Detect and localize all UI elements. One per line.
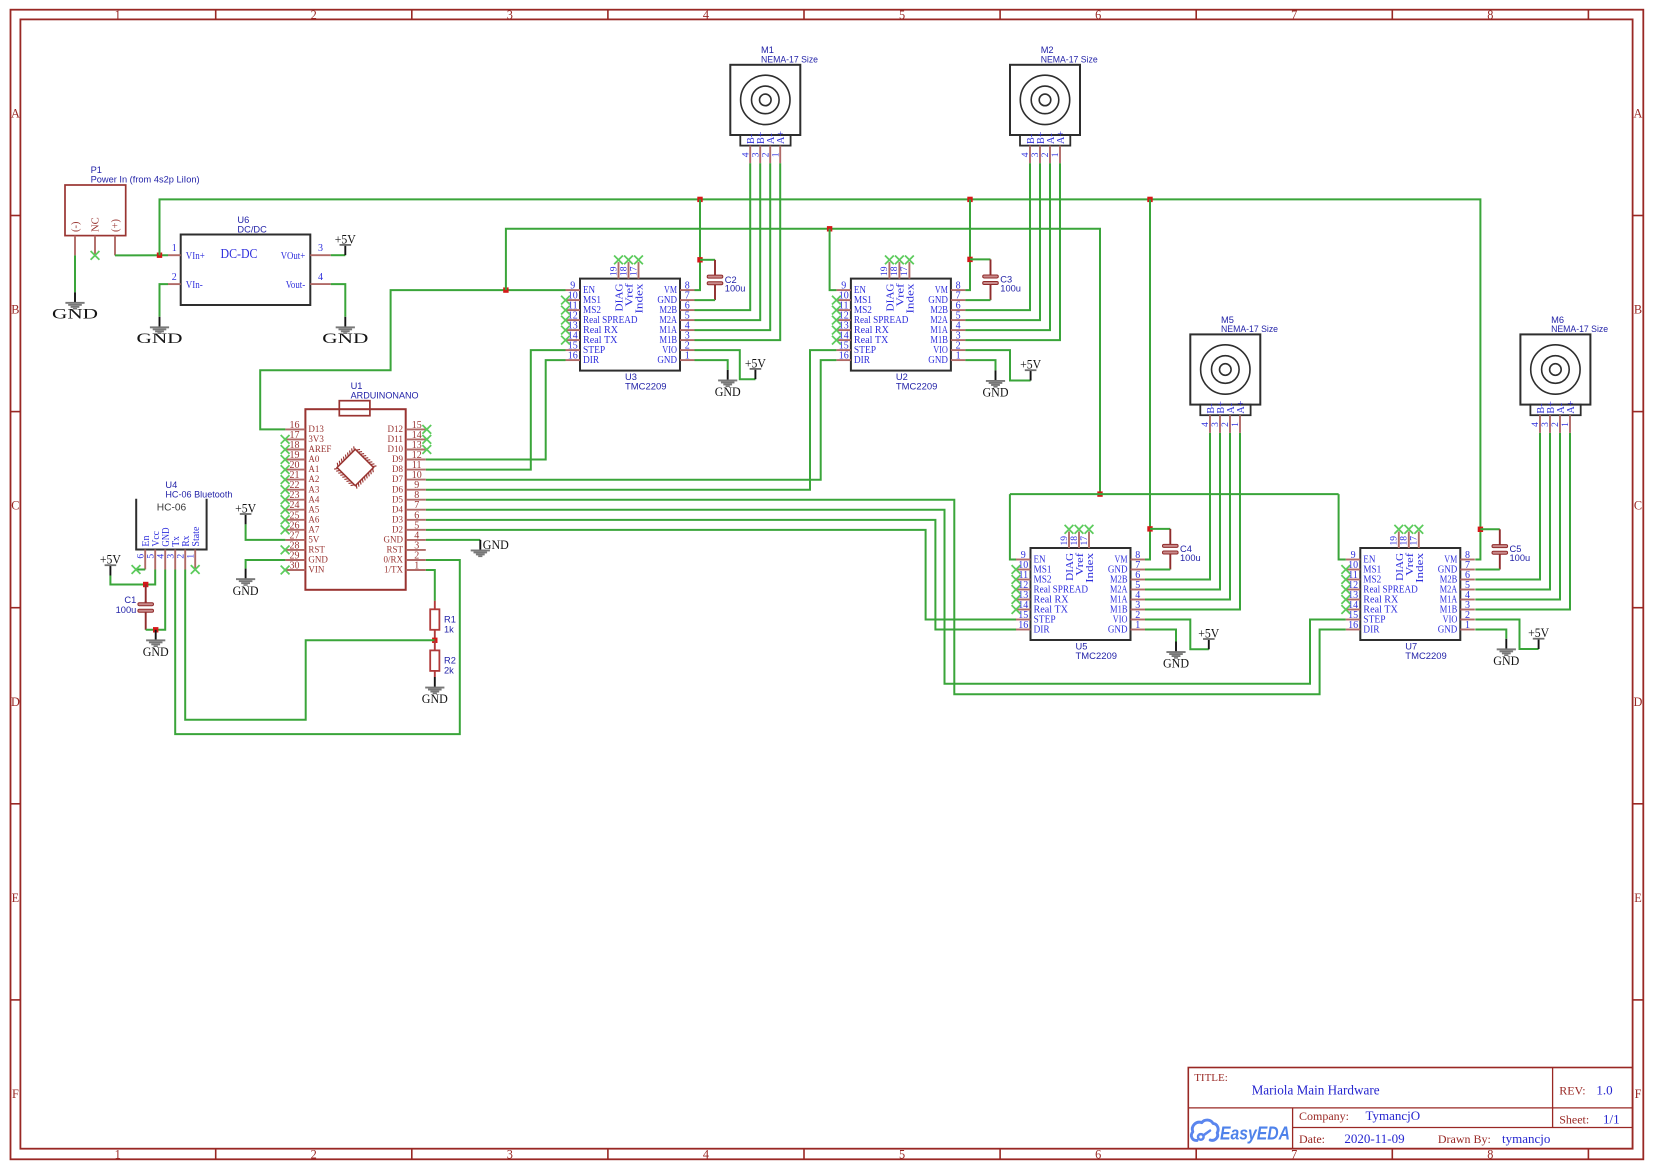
no-connect X xyxy=(191,565,200,574)
no-connect X xyxy=(281,525,290,534)
pin 7 D4 of U1 xyxy=(406,509,426,511)
regulator U6 DC-DC xyxy=(181,235,311,306)
wire U2 DIR from D7 xyxy=(426,360,837,480)
svg-text:U3: U3 xyxy=(625,372,637,382)
ground xyxy=(65,292,84,309)
svg-text:Sheet:: Sheet: xyxy=(1559,1112,1589,1126)
no-connect X xyxy=(422,445,431,454)
no-connect X xyxy=(132,565,141,574)
pin 12 Real SPREAD of U2 xyxy=(836,319,851,321)
svg-text:D4: D4 xyxy=(392,505,403,515)
pin 16 DIR of U7 xyxy=(1346,629,1361,631)
pin 2 VIO of U3 xyxy=(680,349,695,351)
pin 14 D11 of U1 xyxy=(406,438,426,440)
pin 3 Tx of U4 xyxy=(174,550,176,570)
svg-text:2: 2 xyxy=(311,1147,317,1161)
svg-text:D3: D3 xyxy=(392,515,403,525)
pin 10 MS1 of U3 xyxy=(566,299,581,301)
svg-text:U1: U1 xyxy=(351,381,363,391)
pin 8 VM of U7 xyxy=(1460,559,1475,561)
svg-text:(+): (+) xyxy=(111,218,122,232)
pin 8 VM of U3 xyxy=(680,289,695,291)
pin 19 DIAG of U5 xyxy=(1068,532,1070,549)
no-connect X xyxy=(561,336,570,345)
wire U5 M2A to M5 pin3 xyxy=(1145,433,1220,590)
svg-text:ARDUINONANO: ARDUINONANO xyxy=(351,391,419,401)
pin 1 1/TX of U1 xyxy=(406,569,426,571)
capacitor C1 branch xyxy=(145,585,147,603)
pin 30 VIN of U1 xyxy=(285,569,305,571)
svg-text:GND: GND xyxy=(422,692,448,706)
pin header of M5 xyxy=(1200,405,1250,416)
pin 18 Vref of U7 xyxy=(1408,532,1410,549)
pin 2 A- of M6 xyxy=(1559,415,1561,433)
pin NC of P1 xyxy=(94,236,96,256)
stepper motor M2 xyxy=(1010,65,1080,135)
wire U2 STEP from D6 xyxy=(426,350,837,490)
wire U7 STEP from D4 xyxy=(426,510,1346,684)
svg-text:TymancjO: TymancjO xyxy=(1366,1108,1421,1123)
svg-text:tymancjo: tymancjo xyxy=(1502,1131,1550,1146)
pin 9 EN of U5 xyxy=(1016,559,1031,561)
svg-text:Index: Index xyxy=(906,284,917,314)
wire C4 bottom to U5 GND pin 7 xyxy=(1145,569,1170,571)
junction xyxy=(697,197,702,202)
svg-text:17: 17 xyxy=(628,266,639,276)
pin 2 A- of M5 xyxy=(1229,415,1231,433)
svg-text:1: 1 xyxy=(685,351,690,362)
pin 1 A+ of M6 xyxy=(1569,415,1571,433)
no-connect X xyxy=(1341,565,1350,574)
pin 6 D3 of U1 xyxy=(406,519,426,521)
pin 4 GND of U1 xyxy=(406,539,426,541)
svg-text:D10: D10 xyxy=(388,445,404,455)
pin 8 VM of U5 xyxy=(1131,559,1146,561)
wire U1 1/TX to R1 xyxy=(426,570,435,601)
no-connect X xyxy=(281,435,290,444)
no-connect X xyxy=(614,256,623,265)
pin 9 D6 of U1 xyxy=(406,489,426,491)
pin 21 A2 of U1 xyxy=(285,479,305,481)
svg-text:+5V: +5V xyxy=(745,356,766,370)
no-connect X xyxy=(561,296,570,305)
wire C1 bottom to U4 GND xyxy=(146,570,166,630)
wire VM vertical to U5 pin 8 xyxy=(1145,199,1150,559)
svg-text:A2: A2 xyxy=(308,475,319,485)
pin 14 Real TX of U7 xyxy=(1346,609,1361,611)
no-connect X xyxy=(1012,595,1021,604)
svg-text:DIR: DIR xyxy=(1363,624,1379,635)
no-connect X xyxy=(832,326,841,335)
pin 5 M2A of U5 xyxy=(1131,589,1146,591)
pin 9 EN of U7 xyxy=(1346,559,1361,561)
svg-text:Drawn By:: Drawn By: xyxy=(1438,1132,1491,1146)
svg-text:5: 5 xyxy=(899,1147,905,1161)
wire divider junction to U4 Rx xyxy=(185,570,435,720)
wire C5 bottom to U7 GND pin 7 xyxy=(1475,569,1500,571)
wire U3 M2A to M1 pin3 xyxy=(695,163,761,320)
pin 13 Real RX of U2 xyxy=(836,329,851,331)
junction xyxy=(143,582,148,587)
pin 16 DIR of U2 xyxy=(836,359,851,361)
pin 3 B+ of M6 xyxy=(1549,415,1551,433)
pin 10 MS1 of U2 xyxy=(836,299,851,301)
pin 19 DIAG of U7 xyxy=(1398,532,1400,549)
+5V power symbol xyxy=(105,564,117,575)
pin 17 Index of U2 xyxy=(908,262,910,279)
svg-text:D11: D11 xyxy=(388,435,404,445)
pin 10 MS1 of U5 xyxy=(1016,569,1031,571)
wire U2 GND1 to ground xyxy=(965,360,995,370)
+5V power symbol xyxy=(240,513,252,524)
svg-text:GND: GND xyxy=(483,538,509,552)
no-connect X xyxy=(281,455,290,464)
svg-text:DC-DC: DC-DC xyxy=(221,246,258,261)
no-connect X xyxy=(281,546,290,555)
pin 5 Vcc of U4 xyxy=(154,550,156,570)
svg-text:6: 6 xyxy=(1095,1147,1101,1161)
svg-text:2: 2 xyxy=(311,8,317,22)
pin 19 A0 of U1 xyxy=(285,459,305,461)
pin 20 A1 of U1 xyxy=(285,469,305,471)
pin 12 D9 of U1 xyxy=(406,459,426,461)
wire U7 M1A to M6 pin2 xyxy=(1475,433,1560,600)
junction xyxy=(157,253,162,258)
pin 13 D10 of U1 xyxy=(406,449,426,451)
pin 3 M1B of U7 xyxy=(1460,609,1475,611)
no-connect X xyxy=(1341,585,1350,594)
junction xyxy=(827,226,832,231)
pin 15 STEP of U2 xyxy=(836,349,851,351)
no-connect X xyxy=(1085,525,1094,534)
resistor R1 xyxy=(434,601,436,610)
svg-text:U2: U2 xyxy=(896,372,908,382)
pin 4 M1A of U2 xyxy=(951,329,966,331)
no-connect X xyxy=(281,465,290,474)
pin 6 M2B of U7 xyxy=(1460,579,1475,581)
svg-text:+5V: +5V xyxy=(235,501,256,515)
stepper motor M1 xyxy=(730,65,800,135)
svg-text:A0: A0 xyxy=(308,455,319,465)
wire U7 M2B to M6 pin4 xyxy=(1475,433,1540,580)
wire U7 DIR from D5 xyxy=(426,500,1346,694)
no-connect X xyxy=(281,566,290,575)
svg-text:REV:: REV: xyxy=(1559,1083,1585,1097)
svg-text:B: B xyxy=(11,303,19,317)
pin 11 MS2 of U5 xyxy=(1016,579,1031,581)
svg-text:AREF: AREF xyxy=(308,445,331,455)
svg-text:EasyEDA: EasyEDA xyxy=(1220,1123,1290,1143)
svg-text:17: 17 xyxy=(1409,536,1420,546)
wire U7 M1B to M6 pin1 xyxy=(1475,433,1570,610)
wire U1 D8 to U3 STEP xyxy=(426,350,566,470)
svg-text:D9: D9 xyxy=(392,455,403,465)
module U4 HC-06 Bluetooth xyxy=(136,499,206,550)
wire C2 top xyxy=(700,259,715,261)
svg-text:GND: GND xyxy=(384,536,404,546)
pin (-) of P1 xyxy=(74,236,76,256)
svg-text:2020-11-09: 2020-11-09 xyxy=(1344,1131,1404,1146)
wire U4 Vcc to +5V xyxy=(110,570,155,585)
svg-text:GND: GND xyxy=(1108,624,1128,635)
svg-text:GND: GND xyxy=(928,355,948,366)
MCU board U1 ARDUINONANO xyxy=(305,409,405,590)
wire U3 M1B to M1 pin1 xyxy=(695,163,781,340)
no-connect X xyxy=(832,316,841,325)
wire C4 top xyxy=(1150,528,1170,530)
pin 6 M2B of U5 xyxy=(1131,579,1146,581)
wire U3 GND1 to ground xyxy=(695,360,728,370)
svg-text:RST: RST xyxy=(387,546,404,556)
pin 4 B- of M6 xyxy=(1539,415,1541,433)
wire U1 0/RX to U4 Tx xyxy=(175,560,460,734)
svg-text:GND: GND xyxy=(1163,657,1189,671)
svg-text:16: 16 xyxy=(1348,620,1358,631)
no-connect X xyxy=(895,256,904,265)
junction xyxy=(153,627,158,632)
svg-text:1: 1 xyxy=(115,8,121,22)
svg-text:1/1: 1/1 xyxy=(1603,1111,1620,1126)
no-connect X xyxy=(561,316,570,325)
svg-text:16: 16 xyxy=(839,351,849,362)
svg-text:A7: A7 xyxy=(308,525,319,535)
capacitor C1 xyxy=(138,601,154,614)
capacitor C5 xyxy=(1492,529,1508,569)
svg-text:2: 2 xyxy=(172,272,177,283)
svg-text:TMC2209: TMC2209 xyxy=(896,381,938,391)
svg-text:DIR: DIR xyxy=(1034,624,1050,635)
pin 4 B- of M5 xyxy=(1209,415,1211,433)
no-connect X xyxy=(1341,605,1350,614)
pin 19 DIAG of U2 xyxy=(888,262,890,279)
svg-text:State: State xyxy=(191,526,202,547)
no-connect X xyxy=(1065,525,1074,534)
pin 11 MS2 of U7 xyxy=(1346,579,1361,581)
ground xyxy=(146,630,165,647)
svg-text:Date:: Date: xyxy=(1299,1132,1325,1146)
wire U4 En stub xyxy=(136,569,145,571)
svg-text:DC/DC: DC/DC xyxy=(237,224,267,234)
pin 4 GND of U4 xyxy=(164,550,166,570)
svg-text:1: 1 xyxy=(115,1147,121,1161)
pin 6 M2B of U2 xyxy=(951,309,966,311)
pin 10 MS1 of U7 xyxy=(1346,569,1361,571)
svg-text:1/TX: 1/TX xyxy=(384,566,403,576)
pin 6 M2B of U3 xyxy=(680,309,695,311)
no-connect X xyxy=(281,515,290,524)
svg-text:Index: Index xyxy=(1085,553,1096,583)
no-connect X xyxy=(624,256,633,265)
wire U7 VIO to +5V xyxy=(1475,620,1538,650)
pin 11 MS2 of U3 xyxy=(566,309,581,311)
title block frame xyxy=(1188,1068,1632,1149)
pin 11 D8 of U1 xyxy=(406,469,426,471)
ground xyxy=(236,569,255,586)
no-connect X xyxy=(281,495,290,504)
wire U2 M1A to M2 pin2 xyxy=(965,163,1050,330)
svg-text:Index: Index xyxy=(1415,553,1426,583)
wire U5 M1B to M5 pin1 xyxy=(1145,433,1240,610)
pin 16 D13 of U1 xyxy=(285,428,305,430)
pin 7 GND of U7 xyxy=(1460,569,1475,571)
pin 15 D12 of U1 xyxy=(406,428,426,430)
connector P1 Power In xyxy=(65,185,126,236)
pin 17 Index of U5 xyxy=(1088,532,1090,549)
wire U5 STEP from D2 xyxy=(426,530,1016,620)
pin 3 VOut+ of U6 xyxy=(310,254,331,256)
wire VM vertical to U2 pin 8 xyxy=(965,199,970,290)
svg-text:1: 1 xyxy=(1230,422,1241,427)
svg-text:A5: A5 xyxy=(308,505,319,515)
svg-text:16: 16 xyxy=(568,351,578,362)
resistor R2 xyxy=(434,640,436,650)
pin 17 3V3 of U1 xyxy=(285,438,305,440)
svg-text:5: 5 xyxy=(899,8,905,22)
svg-text:100u: 100u xyxy=(725,284,746,294)
wire net EN down to U7 EN xyxy=(1339,494,1346,559)
pin 2 VIO of U5 xyxy=(1131,619,1146,621)
junction xyxy=(1147,197,1152,202)
ground xyxy=(1497,639,1516,656)
svg-text:A+: A+ xyxy=(1236,400,1247,413)
svg-text:D8: D8 xyxy=(392,465,403,475)
pin 1 A+ of M2 xyxy=(1059,146,1061,164)
svg-text:NEMA-17 Size: NEMA-17 Size xyxy=(1041,55,1098,65)
pin 22 A3 of U1 xyxy=(285,489,305,491)
no-connect X xyxy=(832,336,841,345)
pin 6 En of U4 xyxy=(144,550,146,570)
wire net VM from P1 to motors drivers xyxy=(160,199,1481,559)
svg-text:+5V: +5V xyxy=(1020,358,1041,372)
ground xyxy=(471,540,490,557)
wire net EN branch up and across xyxy=(506,229,1100,494)
no-connect X xyxy=(281,475,290,484)
svg-text:+5V: +5V xyxy=(1198,626,1219,640)
pin 14 Real TX of U2 xyxy=(836,339,851,341)
svg-text:A+: A+ xyxy=(776,131,787,144)
+5V power symbol xyxy=(340,244,352,255)
no-connect X xyxy=(1075,525,1084,534)
svg-text:GND: GND xyxy=(715,385,741,399)
wire net EN from D13 to drivers xyxy=(260,290,565,429)
junction xyxy=(503,287,508,292)
svg-text:Vout-: Vout- xyxy=(286,280,306,291)
pin 13 Real RX of U5 xyxy=(1016,599,1031,601)
svg-text:GND: GND xyxy=(308,556,328,566)
pin 7 GND of U5 xyxy=(1131,569,1146,571)
pin 28 RST of U1 xyxy=(285,549,305,551)
pin 5 M2A of U3 xyxy=(680,319,695,321)
pin 4 B- of M2 xyxy=(1029,146,1031,164)
no-connect X xyxy=(281,505,290,514)
svg-text:3: 3 xyxy=(507,8,513,22)
pin 12 Real SPREAD of U3 xyxy=(566,319,581,321)
svg-text:8: 8 xyxy=(1487,1147,1493,1161)
svg-text:U7: U7 xyxy=(1405,641,1417,651)
no-connect X xyxy=(1012,585,1021,594)
pin 1 A+ of M5 xyxy=(1239,415,1241,433)
svg-text:100u: 100u xyxy=(1180,553,1201,563)
svg-text:RST: RST xyxy=(308,546,325,556)
wire U5 M2B to M5 pin4 xyxy=(1145,433,1210,580)
svg-text:HC-06: HC-06 xyxy=(157,503,187,514)
pin 3 RST of U1 xyxy=(406,549,426,551)
pin 2 A- of M2 xyxy=(1049,146,1051,164)
no-connect X xyxy=(422,435,431,444)
svg-text:A+: A+ xyxy=(1566,400,1577,413)
svg-text:A1: A1 xyxy=(308,465,319,475)
wire U2 M2B to M2 pin4 xyxy=(965,163,1030,310)
svg-text:5V: 5V xyxy=(308,536,319,546)
pin 14 Real TX of U3 xyxy=(566,339,581,341)
svg-text:GND: GND xyxy=(1493,654,1519,668)
pin 1 VIn+ of U6 xyxy=(168,254,181,256)
pin 3 M1B of U2 xyxy=(951,339,966,341)
wire +5V to U1 5V pin xyxy=(246,524,286,540)
pin 10 D7 of U1 xyxy=(406,479,426,481)
svg-text:U6: U6 xyxy=(237,215,249,225)
pin 3 M1B of U3 xyxy=(680,339,695,341)
svg-text:1.0: 1.0 xyxy=(1596,1082,1612,1097)
svg-text:NEMA-17 Size: NEMA-17 Size xyxy=(761,55,818,65)
svg-text:DIR: DIR xyxy=(854,355,870,366)
svg-text:NC: NC xyxy=(91,217,102,232)
chip icon of U1 xyxy=(333,445,379,491)
pin 1 GND of U2 xyxy=(951,359,966,361)
pin 27 5V of U1 xyxy=(285,539,305,541)
pin 2 VIO of U2 xyxy=(951,349,966,351)
wire U3 M1A to M1 pin2 xyxy=(695,163,771,330)
ground xyxy=(986,370,1005,387)
wire net EN down to U2 xyxy=(830,229,837,290)
svg-text:1k: 1k xyxy=(444,624,454,634)
wire C5 top xyxy=(1480,528,1499,530)
svg-text:1: 1 xyxy=(414,561,419,572)
EasyEDA logo xyxy=(1191,1120,1218,1140)
svg-text:TMC2209: TMC2209 xyxy=(1076,651,1118,661)
pin 12 Real SPREAD of U7 xyxy=(1346,589,1361,591)
svg-text:1: 1 xyxy=(1465,620,1470,631)
no-connect X xyxy=(1012,565,1021,574)
svg-text:D12: D12 xyxy=(388,425,404,435)
pin 15 STEP of U7 xyxy=(1346,619,1361,621)
capacitor C2 xyxy=(707,260,723,300)
pin 4 M1A of U7 xyxy=(1460,599,1475,601)
pin 2 0/RX of U1 xyxy=(406,559,426,561)
pin 16 DIR of U3 xyxy=(566,359,581,361)
svg-text:U5: U5 xyxy=(1076,641,1088,651)
no-connect X xyxy=(832,306,841,315)
svg-text:R2: R2 xyxy=(444,655,456,665)
svg-text:GND: GND xyxy=(52,306,98,323)
wire U1 GND4 to ground xyxy=(426,539,481,541)
pin 5 M2A of U7 xyxy=(1460,589,1475,591)
wire U5 GND1 to ground xyxy=(1145,630,1176,642)
svg-text:GND: GND xyxy=(137,330,183,347)
junction xyxy=(1478,527,1483,532)
wire VOut+ to +5V xyxy=(331,254,346,256)
wire VM vertical to U3 pin 8 xyxy=(695,199,701,290)
svg-text:4: 4 xyxy=(703,8,709,22)
driver IC U7 TMC2209 xyxy=(1360,548,1460,640)
pin 1 GND of U3 xyxy=(680,359,695,361)
svg-text:NEMA-17 Size: NEMA-17 Size xyxy=(1551,324,1608,334)
svg-text:VIn-: VIn- xyxy=(186,280,203,291)
wire U3 M2B to M1 pin4 xyxy=(695,163,751,310)
svg-text:GND: GND xyxy=(322,330,368,347)
pin 3 B+ of M5 xyxy=(1219,415,1221,433)
pin 18 Vref of U2 xyxy=(898,262,900,279)
